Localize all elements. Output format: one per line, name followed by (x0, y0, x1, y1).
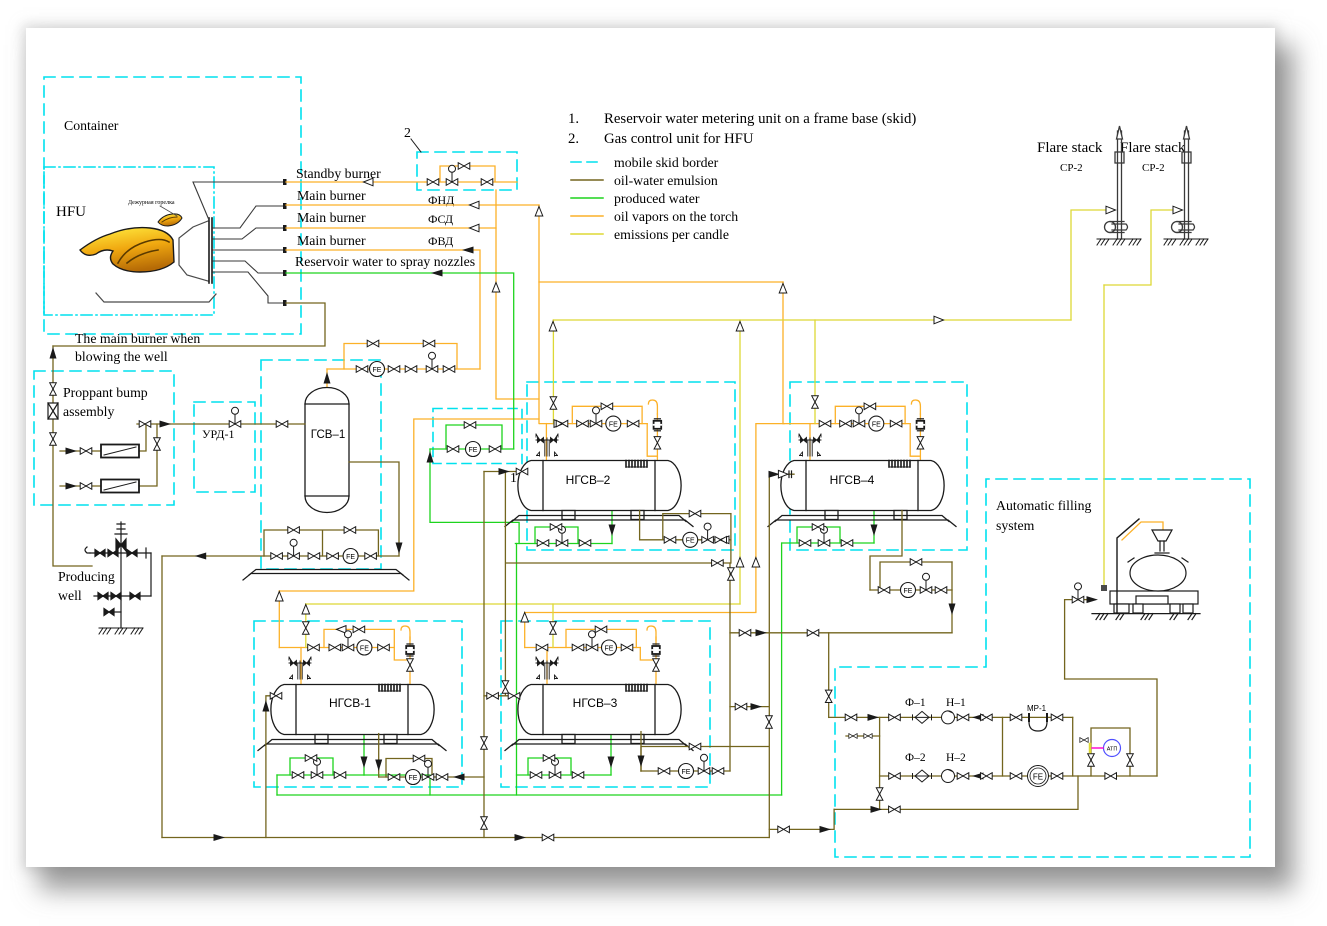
arrow NGSV-4 inlet (769, 471, 781, 478)
valve on NGSV-2 riser lower (481, 817, 488, 829)
wellhead mast (120, 522, 122, 628)
wire NGSV-3 vapor drop (546, 648, 548, 685)
svg-text:mobile skid border: mobile skid border (614, 155, 719, 170)
wire NGSV-3 meter bypass (641, 747, 730, 772)
wire NGSV-4 meter bypass (880, 562, 952, 590)
valve NGSV-1 vent (407, 659, 414, 671)
valve row1 block (981, 714, 993, 721)
main burner feed line FSD (213, 228, 284, 239)
valve NGSV-1 water bypass (305, 755, 317, 762)
svg-text:Reservoir water to spray nozzl: Reservoir water to spray nozzles (295, 254, 475, 269)
ground for flare 1 (1097, 239, 1141, 245)
arrow proppant row 2 (66, 483, 78, 490)
check valve N-2 (972, 773, 984, 780)
arrow NGSV-1 outlet down (375, 760, 382, 772)
wire NGSV-4 vapor feed drop (809, 424, 811, 461)
wire GSV-1 kill line to well (162, 555, 264, 557)
skid border: NGSV-1 (254, 621, 462, 787)
arrow flare arm 2 (1173, 206, 1183, 214)
valve NGSV-3 inlet 1 (487, 693, 499, 700)
svg-text:produced water: produced water (614, 191, 700, 206)
svg-text:FE: FE (1033, 773, 1043, 782)
wire NGSV-3 outlet (640, 732, 642, 771)
relief valve NGSV-2 riser (481, 737, 488, 749)
reservoir water feed line (213, 261, 284, 273)
wire truck loading arm (1122, 522, 1163, 540)
wire GSV-1 discharge (349, 462, 399, 556)
wire NGSV-4 water drop (781, 543, 783, 795)
wire metering unit outlet (430, 449, 519, 544)
wire NGSV-2 relief drop (552, 320, 554, 424)
wire emulsion header (505, 472, 730, 696)
valve NGSV-2 vent (654, 437, 661, 449)
flange NGSV-4 inlet (789, 471, 792, 478)
truck chassis (1110, 591, 1198, 604)
valve MR-1 upstream (1010, 714, 1022, 721)
valve NGSV-2 inlet (516, 468, 528, 475)
valve NGSV-1 bypass (353, 626, 365, 633)
arrow yellow lower header left (302, 605, 310, 615)
vessel NGSV-1 (258, 685, 446, 751)
wire NGSV-2 outlet (640, 511, 731, 540)
svg-text:2.: 2. (568, 131, 579, 147)
pilot flame (158, 214, 182, 226)
stub valve a (849, 734, 857, 739)
wire cross main to NGSV-4 (539, 281, 783, 283)
wire metering unit bypass (446, 425, 502, 449)
wire produced water main (277, 794, 782, 796)
arrow NGSV-3 drain down (608, 757, 615, 769)
wire metering unit row (430, 448, 514, 450)
wire main riser (729, 563, 731, 771)
wire spray nozzles supply (286, 273, 514, 449)
valve NGSV-2 bypass (601, 403, 613, 410)
wire NGSV-1 drain (363, 734, 365, 775)
wire well riser to bottom main (161, 556, 163, 838)
arrow NGSV-1 drain down (361, 757, 368, 769)
arrow proppant row 1 (66, 448, 78, 455)
wire NGSV-3 relief drop (552, 604, 554, 648)
wire NGSV-2 manifold bypass (572, 406, 642, 423)
vessel NGSV-3 (505, 685, 693, 751)
valve NGSV-3 vent stub (502, 681, 509, 693)
svg-text:НГСВ–2: НГСВ–2 (566, 473, 611, 487)
arrow transfer header (756, 629, 768, 636)
open arrow NGSV-4 inlet (778, 470, 788, 478)
valve ATP sample (1080, 738, 1088, 743)
stub valve b (864, 734, 872, 739)
flare stack SR-2 no.1 (1105, 126, 1128, 239)
svg-text:Main burner: Main burner (297, 210, 366, 225)
tank barrel (1130, 555, 1186, 591)
arrow pump row1 (868, 714, 880, 721)
wire pump rows junction right (1072, 717, 1074, 776)
svg-text:АТП: АТП (1107, 747, 1118, 753)
valve NGSV-3 water bypass (543, 755, 555, 762)
valve NGSV-4 meter bypass (910, 559, 922, 566)
valve suction stub (778, 826, 790, 833)
valve proppant row 1 (80, 448, 92, 455)
wire pump rows junction left (879, 717, 881, 809)
wire FND riser (538, 205, 540, 424)
valve proppant riser 2 (50, 433, 57, 445)
control valve GSV-1 lower (288, 539, 300, 559)
arrow yellow lower header mid (736, 558, 744, 568)
relief valve NGSV-1 yellow (303, 622, 310, 634)
loading funnel (1152, 530, 1172, 541)
wire NGSV-3 vent right (640, 637, 656, 684)
relief valve NGSV-2 yellow (550, 397, 557, 409)
svg-text:oil vapors on the torch: oil vapors on the torch (614, 209, 738, 224)
wire NGSV-3 water bypass (528, 758, 571, 775)
wire NGSV-2 water row (515, 543, 612, 545)
truck return end connector (1101, 585, 1107, 591)
callout leader for 2 (411, 139, 421, 152)
blow-out feed line (213, 272, 284, 303)
valve transfer header 2 (807, 630, 819, 637)
svg-text:Proppant bump: Proppant bump (63, 385, 148, 400)
skid border: NGSV-4 (790, 382, 967, 550)
wire pump rows junction mid (1002, 717, 1004, 776)
burner cone body (179, 221, 208, 281)
svg-text:ГСВ–1: ГСВ–1 (311, 429, 345, 441)
wire NGSV-2 candle stub (656, 414, 658, 456)
valve X on bottom drop (876, 788, 883, 800)
sand filter on riser (48, 403, 58, 419)
svg-text:НГСВ–4: НГСВ–4 (830, 473, 875, 487)
valve pump row2 inlet (889, 773, 901, 780)
instrument FE NGSV-3 (602, 640, 617, 655)
filter F-1 (913, 711, 932, 723)
pipe end ticks at burner labels (283, 179, 287, 306)
wire flare main header (553, 319, 1071, 321)
svg-text:assembly: assembly (63, 404, 114, 419)
wire gas control vertical drop (496, 190, 539, 399)
valve GSV-1 bypass 2 (423, 340, 435, 347)
control valve URD-1 (229, 407, 241, 427)
valve FE downstream (1051, 773, 1063, 780)
valve NGSV-4 row 3 (890, 420, 902, 427)
svg-text:СР-2: СР-2 (1060, 162, 1083, 174)
svg-text:Ф–2: Ф–2 (905, 752, 926, 764)
instrument FE NGSV-2 (606, 416, 621, 431)
wire NGSV-4 inlet (769, 473, 794, 475)
check valve N-1 (972, 714, 984, 721)
wire NGSV-4 meter row (870, 589, 952, 591)
svg-text:Main burner: Main burner (297, 233, 366, 248)
legend swatch: oil-water emulsion (571, 179, 603, 181)
valve NGSV-2 water row 2 (579, 540, 591, 547)
arrow yellow header marker 1 (549, 322, 557, 332)
valve NGSV-4 meter row 1 (878, 587, 890, 594)
valve proppant riser 1 (50, 383, 57, 395)
wire NGSV-1 water drop (276, 775, 278, 795)
wire NGSV-3 meter row (641, 770, 730, 772)
arrow NGSV-3 orange drop (521, 613, 529, 623)
wire proppant outlet (137, 423, 305, 425)
valve GSV-1 bypass row b (344, 527, 356, 534)
svg-text:2: 2 (404, 125, 411, 140)
wire GSV-1 manifold bypass (344, 344, 457, 370)
valve GSV-1 row 2 (388, 366, 400, 373)
arrow suction stub (820, 826, 832, 833)
skid border: NGSV-3 (501, 621, 710, 787)
pump N-1 (942, 711, 955, 724)
wire NGSV-1 water outlet right (364, 775, 430, 795)
wire NGSV-1 meter row (379, 776, 484, 778)
valve N-2 discharge (957, 773, 969, 780)
valve GSV-1 lower row 2 (308, 553, 320, 560)
wire FVD line (286, 250, 480, 369)
side line (150, 553, 152, 596)
open arrow NGSV-2 meter row (720, 536, 730, 544)
wire pump row 2 (880, 775, 1157, 777)
wire GSV-1 vent drop (326, 369, 328, 388)
wire NGSV-3 manifold lower (525, 647, 641, 649)
instrument FE NGSV-4 (869, 416, 884, 431)
arrow NGSV-1 discharge left (453, 774, 465, 781)
valve NGSV-3 row 2 (572, 644, 584, 651)
flame of HFU (80, 228, 174, 272)
legend swatch: emissions per candle (571, 233, 603, 235)
svg-text:НГСВ-1: НГСВ-1 (329, 696, 371, 710)
valve in box2 lower right (481, 179, 493, 186)
valve row2 block (981, 773, 993, 780)
valve NGSV-4 row 2 (840, 420, 852, 427)
arrow NGSV-2 inlet (499, 468, 511, 475)
valve transfer drop (825, 690, 832, 702)
damper NGSV-3 vent (652, 644, 660, 656)
arrow NGSV-3 side feed (751, 703, 763, 710)
instrument FE metering (466, 442, 481, 457)
valve GSV-1 bypass 1 (367, 340, 379, 347)
damper NGSV-2 vent (654, 419, 662, 431)
valve NGSV-3 meter row 1 (658, 768, 670, 775)
arrow GSV-1 vent up (324, 372, 331, 384)
control valve NGSV-3 meter (698, 754, 710, 774)
arrow GSV-1 discharge down (396, 543, 403, 555)
valve ATP loop right (1127, 754, 1134, 766)
valve proppant outlet (139, 421, 151, 428)
svg-text:1.: 1. (568, 111, 579, 127)
wire NGSV-4 manifold lower (783, 423, 910, 425)
valve NGSV-3 side feed (735, 703, 747, 710)
wire NGSV-4 outlet (870, 511, 902, 591)
instrument FE pump unit (1028, 766, 1049, 787)
ATP analyzer (1104, 740, 1121, 757)
control valve NGSV-1 (342, 631, 354, 651)
valve GSV-1 lower row 4 (365, 553, 377, 560)
flare stack SR-2 no.2 (1172, 126, 1195, 239)
wire NGSV-3 vent header (525, 424, 784, 613)
wire truck feed (1065, 600, 1093, 679)
wire GSV-1 lower manifold row (264, 555, 399, 557)
arrow FND riser up (535, 207, 543, 217)
valve NGSV-4 bypass (864, 403, 876, 410)
arrow on FND line (470, 201, 480, 209)
skid border: automatic filling system + pump unit (L shape) (835, 479, 1250, 857)
pump N-2 (942, 770, 955, 783)
wire NGSV-1 vapor drop (300, 648, 302, 685)
valve NGSV-1 row 1 (308, 644, 320, 651)
burner support trough (96, 293, 216, 302)
wellhead stack fittings (115, 524, 127, 534)
candle curl NGSV-3 (647, 626, 656, 640)
control valve NGSV-3 (586, 631, 598, 651)
valve proppant inter-row (154, 438, 161, 450)
skid border: GSV-1 unit (261, 360, 381, 569)
vessel GSV-1 vertical separator (305, 388, 349, 513)
wire NGSV-3 water row (517, 774, 612, 776)
wire NGSV-1 meter bypass (386, 759, 432, 778)
valve NGSV-1 water row 1 (292, 772, 304, 779)
svg-text:Flare stack: Flare stack (1120, 140, 1186, 156)
valve NGSV-1 meter row 2 (436, 774, 448, 781)
wire ATP loop (1091, 728, 1130, 776)
arrow NGSV-1 orange drop (276, 592, 284, 602)
wire NGSV-3 feed vertical (524, 613, 526, 648)
wire NGSV-2 drain (611, 510, 613, 544)
stub valve (104, 609, 114, 616)
arrow spray nozzle line (431, 270, 443, 277)
valve GSV-1 inlet (276, 421, 288, 428)
open arrow NGSV-1 bypass (337, 626, 347, 634)
arrow on standby line (364, 178, 374, 186)
wire lower vent header (306, 603, 740, 605)
NGSV-1 manifold fittings (289, 622, 414, 679)
svg-text:ФСД: ФСД (428, 212, 453, 226)
svg-text:Producing: Producing (58, 569, 115, 584)
damper NGSV-1 vent (406, 644, 414, 656)
safety valve cluster NGSV-2 (536, 434, 558, 456)
arrow NGSV-1 inlet up (262, 700, 269, 712)
svg-text:system: system (996, 518, 1035, 533)
valve NGSV-4 meter row 2 (935, 587, 947, 594)
valve NGSV-3 row 1 (536, 644, 548, 651)
relief valve NGSV-3 yellow (550, 622, 557, 634)
control valve NGSV-3 water (549, 758, 561, 778)
wire NGSV-3 manifold bypass (566, 629, 636, 647)
wire GSV-1 vapor manifold lower (327, 368, 480, 370)
svg-text:УРД-1: УРД-1 (202, 427, 234, 441)
arrow proppant outlet (160, 421, 172, 428)
arrow NGSV-4 drain down (871, 525, 878, 537)
valve on main riser (728, 568, 735, 580)
valve in box2 lower left (427, 179, 439, 186)
instrument FE NGSV-1 (357, 640, 372, 655)
skid border: URD-1 (194, 402, 255, 492)
valve NGSV-1 row 2 (329, 644, 341, 651)
wire NGSV-4 drain (873, 510, 875, 543)
wire transfer header (730, 632, 952, 634)
ground for producing well (99, 628, 143, 634)
control valve NGSV-4 (853, 407, 865, 427)
filter F-2 (913, 770, 932, 782)
wire NGSV-1 manifold bypass (324, 629, 394, 647)
valve metering bypass (464, 422, 476, 429)
wire FSD line (286, 227, 496, 229)
valve NGSV-2 row 1 (556, 420, 568, 427)
valve NGSV-3 inlet 2 (508, 693, 520, 700)
wire NGSV-4 manifold bypass (835, 406, 905, 423)
control valve NGSV-2 (590, 407, 602, 427)
candle curl NGSV-4 (911, 400, 920, 414)
control valve NGSV-2 meter (702, 523, 714, 543)
valve MR-1 downstream (1051, 714, 1063, 721)
valve NGSV-3 meter row 2 (712, 768, 724, 775)
wire NGSV-2 vapor feed vertical (545, 424, 547, 461)
valve GSV-1 lower row 1 (271, 553, 283, 560)
arrow suction header (871, 806, 883, 813)
wire NGSV-4 vent right (910, 414, 920, 461)
svg-text:well: well (58, 588, 82, 603)
wire NGSV-2 inlet (484, 471, 519, 473)
wire NGSV-1 feed vertical (278, 591, 280, 648)
safety valve cluster NGSV-1 (289, 657, 311, 679)
arrow yellow flare main right (934, 316, 944, 324)
wire NGSV-2 water drop (516, 544, 518, 796)
skid border: gas control unit 2 (417, 152, 517, 190)
wire NGSV-2 manifold lower (540, 423, 648, 425)
valve NGSV-3 side drop (766, 716, 773, 728)
svg-text:Container: Container (64, 118, 119, 133)
arrow on FSD line (470, 224, 480, 232)
svg-text:Flare stack: Flare stack (1037, 140, 1103, 156)
valve NGSV-1 meter bypass (413, 755, 425, 762)
wire gas control unit lower run (425, 166, 517, 182)
valve ATP loop left (1088, 754, 1095, 766)
valve NGSV-4 water bypass (812, 524, 824, 531)
valve NGSV-4 water row 1 (799, 540, 811, 547)
open arrow NGSV-2 manifold (554, 420, 564, 428)
svg-text:МР-1: МР-1 (1027, 704, 1047, 713)
valve proppant row 2 (80, 483, 92, 490)
legend swatch: produced water (571, 197, 603, 199)
wire NGSV-1 water bypass (290, 758, 333, 775)
arrow NGSV-3 outlet down (638, 756, 645, 768)
flow regulator MR-1 (1029, 714, 1047, 731)
wire NGSV-1 outlet (378, 734, 380, 777)
main burner feed line FND (213, 206, 284, 228)
wire flare 1 riser (1071, 210, 1114, 320)
wire bottom main (162, 837, 769, 839)
vessel NGSV-2 (505, 461, 693, 527)
svg-text:oil-water emulsion: oil-water emulsion (614, 173, 718, 188)
arrow bottom main (214, 834, 226, 841)
arrow NGSV-2 drain down (609, 525, 616, 537)
wire NGSV-1 relief drop (305, 604, 307, 648)
control valve NGSV-1 meter (422, 760, 434, 780)
valve NGSV-4 row 1 (819, 420, 831, 427)
candle curl NGSV-2 (648, 400, 657, 414)
valve NGSV-1 water row 2 (334, 772, 346, 779)
skid border: metering unit 1 (433, 409, 522, 464)
wire NGSV-2 feed riser (483, 472, 485, 838)
instrument FE NGSV-2 meter (683, 532, 698, 547)
arrow on FVD line (filled) (462, 247, 474, 254)
valve NGSV-3 water row 1 (530, 772, 542, 779)
control valve NGSV-1 water (311, 758, 323, 778)
valve F-1 upstream (889, 714, 901, 721)
wire NGSV-2 outlet bypass (663, 514, 731, 540)
arrow NGSV-4 vent riser (779, 284, 787, 294)
svg-text:blowing the well: blowing the well (75, 349, 168, 364)
wire NGSV-4 water row (782, 542, 874, 544)
arrow yellow header marker 2 (736, 322, 744, 332)
arrow flare arm 1 (1106, 206, 1116, 214)
NGSV-4 manifold fittings (799, 396, 924, 456)
valve NGSV-3 bypass (595, 626, 607, 633)
